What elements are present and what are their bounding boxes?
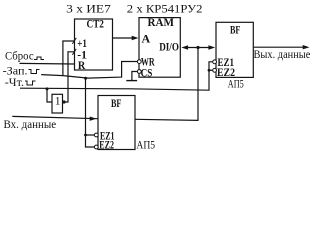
svg-text:BF: BF [111, 96, 121, 110]
svg-text:СТ2: СТ2 [87, 16, 104, 30]
svg-text:3 х ИЕ7: 3 х ИЕ7 [66, 3, 111, 16]
wire Сброс to R pin [20, 62, 75, 65]
pulse symbol positive (Сброс) [34, 57, 44, 60]
wire data branch down to bottom BF output [135, 48, 198, 121]
svg-text:1: 1 [55, 94, 61, 107]
inversion bubble CS [137, 70, 141, 74]
junction dot -Чт. to inverter input [46, 87, 49, 90]
wire inverter output up to -1 pin [63, 52, 75, 102]
wire -Зап. branch up to +1 pin [63, 41, 75, 76]
arrowhead Вх. данные [90, 116, 97, 120]
arrowhead DI/O right (into BF) [208, 45, 215, 49]
svg-text:-Чт.: -Чт. [5, 76, 24, 89]
svg-text:Сброс: Сброс [5, 50, 34, 63]
svg-text:RAM: RAM [148, 15, 175, 29]
wire bottom BF EZ2 stub [86, 135, 95, 147]
junction dot DI/O branch [196, 46, 199, 49]
inversion bubble WR [137, 60, 141, 64]
svg-text:EZ2: EZ2 [99, 140, 114, 152]
svg-text:Вых. данные: Вых. данные [254, 48, 311, 61]
wire CT2 out to RAM A [113, 37, 135, 39]
inverter U5 box [52, 94, 63, 113]
wire -Чт. branch down to inverter input [47, 89, 52, 102]
pulse symbol negative (-Чт.) [25, 81, 36, 85]
junction dot -Зап. to EZ branch [84, 77, 87, 80]
wire -Зап. run to WR [41, 62, 137, 79]
wire Вх. данные [12, 116, 98, 118]
svg-text:A: A [142, 32, 151, 46]
wire DI/O bus between RAM and top BF [185, 47, 212, 49]
ground symbol bar [126, 80, 137, 82]
inversion bubble top EZ1 [213, 60, 217, 64]
RAM U2 box [139, 18, 180, 78]
inversion bubble top EZ2 [213, 68, 217, 72]
counter U1 CT2 box [75, 19, 113, 70]
svg-text:BF: BF [230, 23, 240, 37]
dynamic input slash -1 [72, 49, 76, 55]
arrowhead CT2 to A [132, 36, 139, 40]
wire -Чт. run to top BF EZ pins [20, 62, 213, 90]
pulse symbol negative (-Зап.) [29, 70, 40, 74]
inversion bubble bottom EZ2 [94, 145, 98, 149]
wire -Зап. branch down to bottom BF EZ1 [86, 78, 95, 135]
junction dot top EZ tie [208, 69, 211, 72]
svg-text:CS: CS [141, 68, 153, 80]
buffer U4 BF bottom (input) box [98, 96, 135, 150]
svg-text:DI/O: DI/O [159, 41, 179, 53]
svg-text:Вх. данные: Вх. данные [4, 118, 57, 131]
svg-text:2 х КР541РУ2: 2 х КР541РУ2 [127, 3, 203, 16]
svg-text:R: R [78, 58, 86, 72]
wire CS to ground [132, 72, 138, 81]
junction dot bottom EZ tie [84, 134, 87, 137]
arrowhead DI/O left (into RAM) [181, 45, 188, 49]
arrowhead Вых. данные [303, 45, 310, 49]
junction dot inverter output [62, 100, 65, 103]
wire Вых. данные [253, 46, 305, 48]
svg-text:АП5: АП5 [228, 78, 244, 91]
svg-text:АП5: АП5 [136, 139, 155, 152]
wire top BF EZ2 stub [209, 69, 213, 71]
buffer U3 BF top (output) box [216, 22, 253, 77]
inversion bubble bottom EZ1 [94, 133, 98, 137]
dynamic input slash +1 [72, 38, 76, 44]
